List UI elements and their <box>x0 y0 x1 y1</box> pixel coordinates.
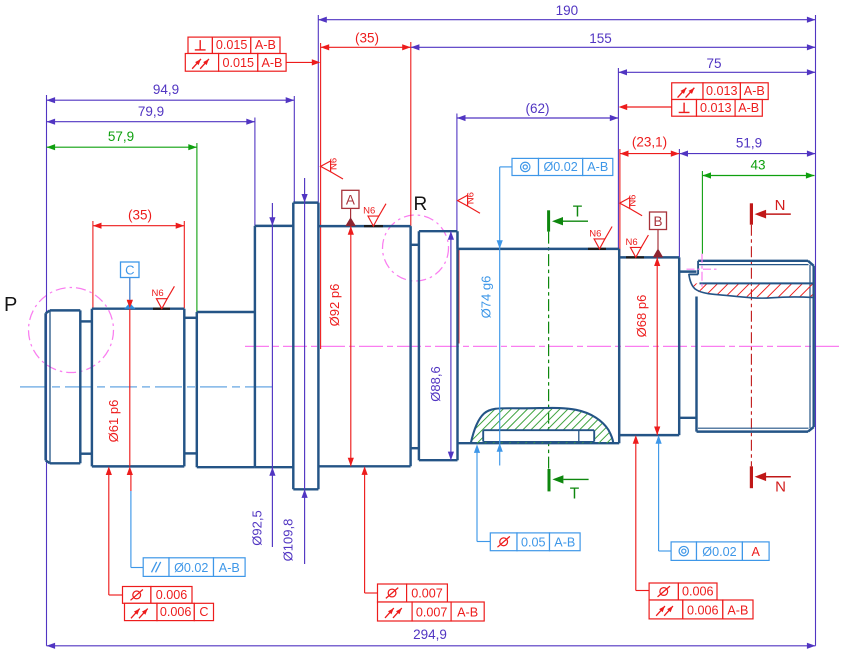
neck 3 <box>679 270 696 272</box>
svg-text:N6: N6 <box>628 195 639 207</box>
journal Ø92 p6 <box>318 225 410 227</box>
svg-text:B: B <box>653 214 662 229</box>
dimension 79,9 <box>47 121 255 123</box>
ext line red face mark (x=458.9) <box>458 249 460 344</box>
flange Ø109,8 <box>292 203 294 490</box>
svg-text:Ø0.02: Ø0.02 <box>174 561 208 575</box>
svg-text:A: A <box>752 545 761 559</box>
dimension 51,9 <box>679 153 815 155</box>
svg-text:N: N <box>775 479 786 496</box>
svg-text:Ø92,5: Ø92,5 <box>249 510 264 545</box>
ext line red 23,1 (x=619.9) <box>619 149 621 257</box>
surface finish N6 on Ø74 <box>594 239 605 249</box>
fcf perpendicularity 0.013 A-B <box>672 100 697 117</box>
svg-text:R: R <box>414 194 428 215</box>
fcf total runout 0.007 A-B <box>378 602 413 621</box>
right end cylinder <box>695 297 697 432</box>
detail circle R <box>383 215 449 281</box>
keyway slot outline <box>483 429 594 431</box>
dimension 75 <box>618 71 815 73</box>
shaft left end cap <box>44 313 46 460</box>
fcf total runout 0.013 A-B <box>672 83 703 100</box>
svg-text:(23,1): (23,1) <box>632 135 667 150</box>
svg-text:51,9: 51,9 <box>736 136 762 151</box>
datum C <box>121 262 140 278</box>
surface finish N6 on Ø61 <box>156 299 167 309</box>
svg-text:0.013: 0.013 <box>706 84 738 98</box>
horizontal centerline (main axis) <box>245 345 842 347</box>
relief groove 2 <box>184 317 197 319</box>
svg-text:0.006: 0.006 <box>682 585 714 599</box>
dimension 155 <box>411 46 816 48</box>
svg-text:0.006: 0.006 <box>160 605 192 619</box>
section Ø92,5 <box>254 226 256 467</box>
svg-text:C: C <box>199 605 208 619</box>
svg-text:Ø88,6: Ø88,6 <box>428 366 443 401</box>
svg-text:T: T <box>570 486 580 503</box>
surface finish N6 on Ø68 <box>630 247 641 257</box>
section line N (red dash-dot) <box>750 225 752 467</box>
fcf cylindricity 0.05 A-B <box>490 533 517 551</box>
ext line 62 (x=456.9) <box>456 114 458 249</box>
svg-text:75: 75 <box>706 56 721 71</box>
svg-text:A-B: A-B <box>261 56 282 70</box>
disc Ø88,6 <box>418 231 420 460</box>
svg-text:294,9: 294,9 <box>413 627 447 642</box>
neck 2 <box>411 244 419 246</box>
fcf total runout 0.006 C <box>125 603 158 620</box>
dimension Ø92,5 <box>271 203 273 547</box>
dimension Ø61 p6 <box>129 278 131 467</box>
surface finish N6 rotated at x=457 <box>458 195 468 206</box>
ext line left datum (x=46.5) <box>46 95 48 646</box>
dimension Ø92 p6 <box>350 226 352 466</box>
svg-text:190: 190 <box>556 3 579 18</box>
dimension (35) top <box>321 46 411 48</box>
surface finish N6 rotated at x=320 <box>321 161 331 172</box>
svg-text:43: 43 <box>750 158 765 173</box>
datum B <box>650 212 667 230</box>
svg-text:A: A <box>346 193 355 208</box>
dimension 57,9 <box>47 146 197 148</box>
section mark T top <box>547 210 550 231</box>
svg-text:0.015: 0.015 <box>222 56 254 70</box>
detail circle P <box>29 288 114 373</box>
dimension (23,1) <box>620 153 680 155</box>
datum A <box>342 190 359 208</box>
svg-text:155: 155 <box>589 31 612 46</box>
ext line green 43 (x=702.4) <box>701 171 703 254</box>
ext line 79,9 (x=254.9) <box>254 118 256 226</box>
svg-text:Ø74 g6: Ø74 g6 <box>478 276 493 319</box>
svg-text:A-B: A-B <box>457 606 478 620</box>
ext line 94,9 (x=294.3) <box>293 96 295 202</box>
fcf cylindricity 0.007 <box>378 584 407 602</box>
svg-text:94,9: 94,9 <box>153 82 179 97</box>
journal Ø68 p6 <box>619 256 679 258</box>
svg-text:A-B: A-B <box>727 604 748 618</box>
svg-text:N6: N6 <box>152 288 164 299</box>
svg-text:A-B: A-B <box>738 101 759 115</box>
dimension (62) <box>457 117 619 119</box>
left neck section <box>196 312 198 467</box>
svg-text:N: N <box>775 197 786 214</box>
svg-text:(35): (35) <box>128 208 152 223</box>
svg-text:(62): (62) <box>525 101 549 116</box>
surface finish N6 on Ø92 <box>368 216 379 226</box>
svg-text:A-B: A-B <box>219 561 240 575</box>
svg-text:79,9: 79,9 <box>138 104 164 119</box>
svg-text:A-B: A-B <box>587 160 608 174</box>
journal Ø61 p6 <box>91 309 93 467</box>
svg-text:(35): (35) <box>355 31 379 46</box>
svg-text:Ø61 p6: Ø61 p6 <box>106 400 121 443</box>
horizontal centerline (offset left journals) <box>20 386 272 388</box>
journal Ø74 g6 <box>458 248 620 250</box>
svg-text:0.007: 0.007 <box>411 587 443 601</box>
ext line green 57,9 (x=196.9) <box>196 143 198 314</box>
svg-text:C: C <box>125 262 134 277</box>
dimension Ø109,8 <box>304 178 306 564</box>
surface finish N6 rotated at x=619 <box>620 198 630 209</box>
dimension 94,9 <box>47 99 295 101</box>
svg-text:N6: N6 <box>465 192 476 204</box>
section mark T bottom <box>548 469 551 491</box>
fcf total runout 0.006 A-B <box>649 600 683 619</box>
svg-text:Ø0.02: Ø0.02 <box>543 160 577 174</box>
dimension 190 <box>318 19 815 21</box>
ext line 51,9/23,1 (x=679.4) <box>678 149 680 257</box>
relief groove 1 <box>80 320 92 322</box>
svg-text:0.05: 0.05 <box>521 535 546 549</box>
svg-text:N6: N6 <box>626 237 638 248</box>
svg-text:N6: N6 <box>363 206 375 217</box>
ext line red 35-left b (x=184.3) <box>183 221 185 309</box>
fcf concentricity Ø0.02 A (right) <box>671 542 696 561</box>
svg-text:P: P <box>4 294 17 316</box>
ext line 75/62 (x=618.4) <box>617 68 619 250</box>
dimension (35) left <box>93 225 184 227</box>
fcf concentricity Ø0.02 A-B <box>512 158 539 175</box>
svg-text:0.013: 0.013 <box>700 101 732 115</box>
svg-text:0.007: 0.007 <box>416 606 448 620</box>
fcf cylindricity 0.006 (right) <box>649 583 678 600</box>
svg-text:0.006: 0.006 <box>687 604 719 618</box>
svg-text:A-B: A-B <box>255 38 276 52</box>
svg-text:A-B: A-B <box>554 535 575 549</box>
fcf perpendicularity 0.015 A-B <box>188 37 212 53</box>
ext line right (x=815.5) <box>815 15 817 646</box>
section mark N top <box>750 203 753 224</box>
dimension Ø74 g6 <box>499 167 501 466</box>
section mark N bottom <box>750 466 753 488</box>
svg-text:N6: N6 <box>328 158 339 170</box>
dimension 294,9 <box>47 645 816 647</box>
ext line red 35-left a (x=92.9) <box>92 221 94 309</box>
svg-text:Ø109,8: Ø109,8 <box>280 519 295 562</box>
svg-text:Ø68 p6: Ø68 p6 <box>634 295 649 338</box>
bore center marks (magenta) <box>687 268 718 270</box>
ext line red 35-top right (x=410.8) <box>410 42 412 226</box>
svg-text:0.015: 0.015 <box>216 38 248 52</box>
svg-text:T: T <box>573 204 583 221</box>
ext line red 35-top left (x=320.6) <box>320 43 322 349</box>
fcf total runout 0.015 A-B <box>185 54 218 72</box>
dimension 43 <box>702 175 814 177</box>
fcf parallelism Ø0.02 A-B <box>143 558 169 577</box>
svg-text:Ø0.02: Ø0.02 <box>702 545 736 559</box>
svg-text:N6: N6 <box>589 228 601 239</box>
surface mark strokes (black) <box>364 225 383 227</box>
svg-text:57,9: 57,9 <box>108 129 134 144</box>
fcf cylindricity 0.006 (left) <box>123 587 151 604</box>
ext line flange right (x=318.3) <box>317 15 319 203</box>
svg-text:Ø92 p6: Ø92 p6 <box>327 284 342 327</box>
dimension Ø88,6 <box>450 231 452 460</box>
section line T (green dash-dot) <box>548 232 550 469</box>
dimension Ø68 p6 <box>656 257 658 435</box>
svg-text:0.006: 0.006 <box>156 588 188 602</box>
svg-text:A-B: A-B <box>744 84 765 98</box>
